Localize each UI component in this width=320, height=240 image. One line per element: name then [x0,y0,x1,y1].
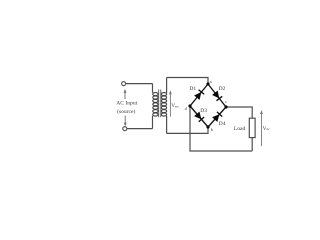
svg-text:D3: D3 [200,108,207,114]
diode D1 [194,90,204,100]
wire secondary top to node a [167,78,208,84]
node b [206,125,209,128]
svg-text:Load: Load [234,126,246,132]
bridge side b-c [208,107,226,127]
svg-text:(source): (source) [117,108,135,115]
diode D2 [212,91,222,101]
transformer primary lead top [152,84,154,93]
svg-text:D2: D2 [218,86,225,92]
wire secondary bottom to node b [167,127,208,133]
transformer primary winding [153,93,158,117]
transformer core [159,90,161,118]
bridge side d-a [190,84,208,106]
wire top terminal to transformer [126,83,153,85]
wire node c to load top [226,107,252,118]
svg-text:c: c [225,99,227,104]
bridge side d-b [190,106,208,127]
load resistor box [249,118,255,137]
diode D3 [194,112,204,122]
arrow up to top terminal [124,92,126,99]
wire node d down and bottom rail to load [190,106,252,151]
transformer secondary winding [161,93,166,117]
transformer primary lead bottom [152,116,154,129]
node c [224,105,227,108]
svg-text:d: d [185,106,188,111]
wire bottom terminal to transformer [127,128,153,130]
svg-text:D1: D1 [189,86,196,92]
svg-text:sec: sec [175,105,180,109]
svg-text:dc: dc [266,127,270,131]
svg-text:AC Input: AC Input [116,101,137,107]
transformer secondary lead top [166,78,168,93]
bridge side a-c [208,84,226,107]
terminal bottom-left [123,127,127,131]
arrow down to bottom terminal [124,116,126,124]
svg-text:b: b [211,127,214,132]
diode D4 [212,112,222,122]
Vdc arrow [261,114,263,146]
terminal top-left [122,82,126,86]
node a [206,82,209,85]
transformer secondary lead bottom [166,116,168,134]
Vsec arrow [169,94,171,117]
svg-text:a: a [210,79,212,84]
node d [188,104,191,107]
svg-text:D4: D4 [219,121,226,127]
wire load bottom [251,138,253,151]
